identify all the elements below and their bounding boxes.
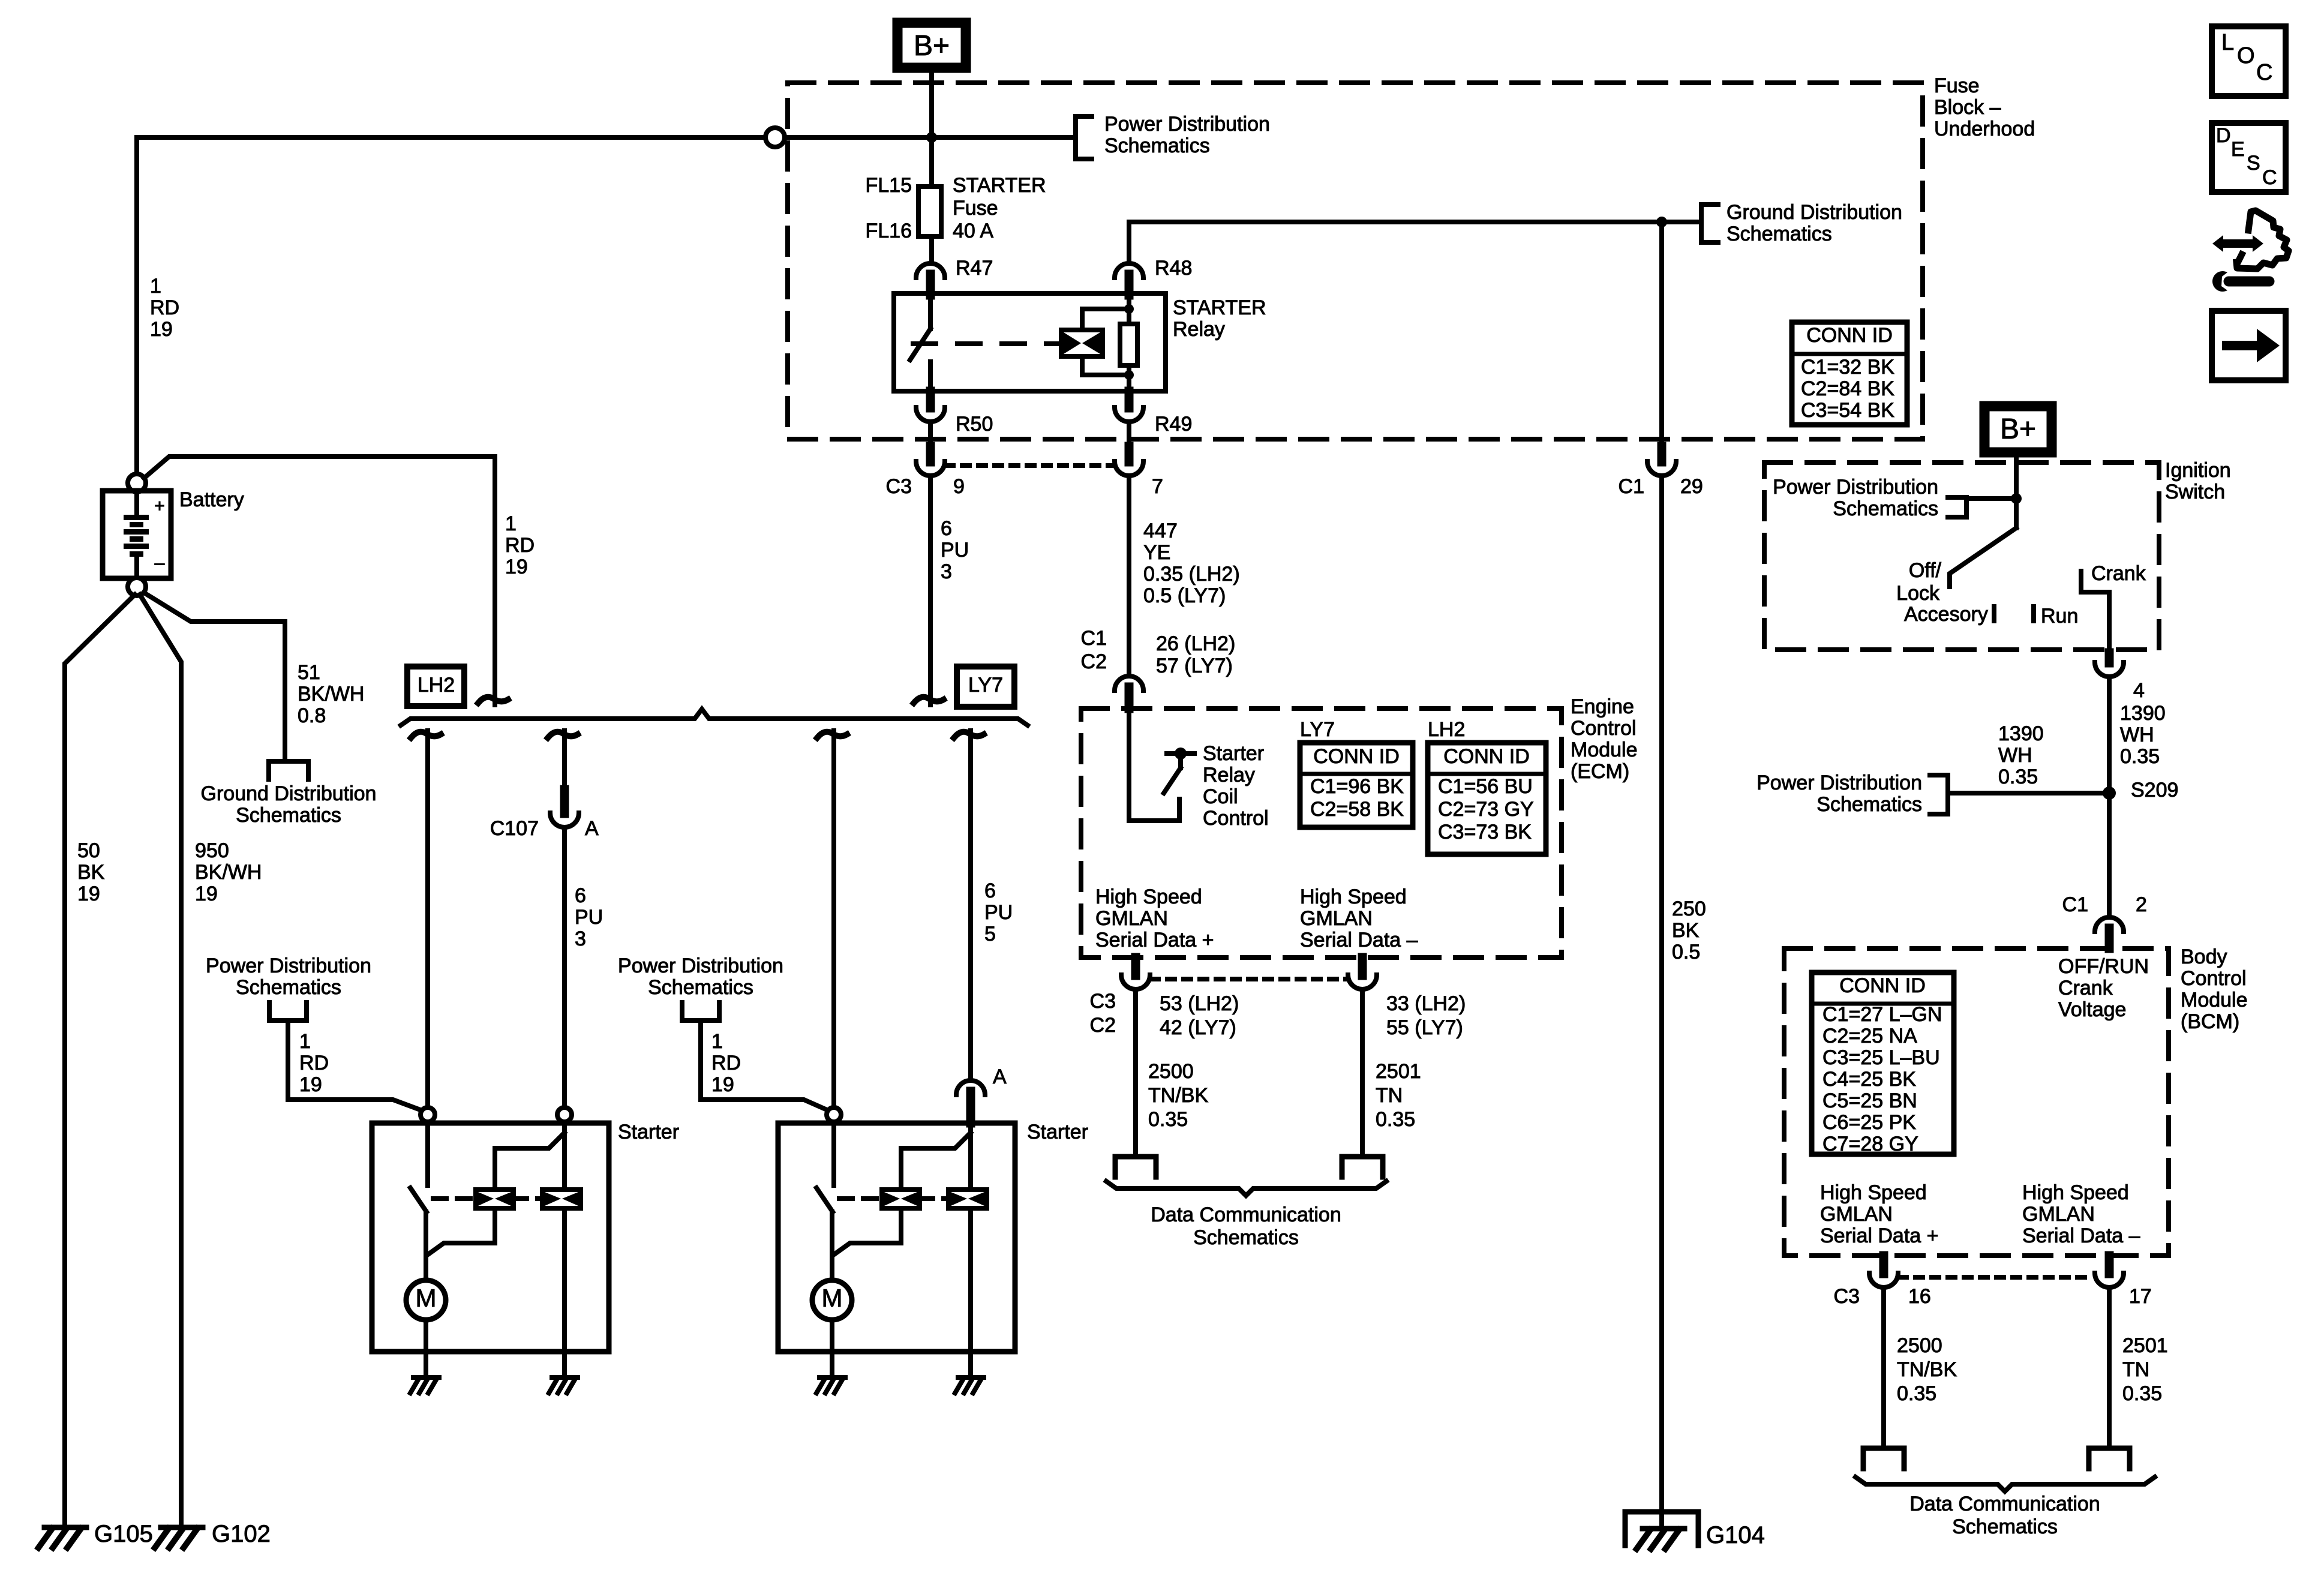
- wire crank feed through hold-in coil: [968, 1122, 973, 1190]
- svg-text:C2=84 BK: C2=84 BK: [1801, 377, 1894, 400]
- svg-text:19: 19: [77, 882, 100, 905]
- starter dashed actuate link: [839, 1196, 882, 1201]
- svg-text:Data Communication: Data Communication: [1909, 1493, 2100, 1515]
- ignition switch rotor arm: [1950, 528, 2016, 587]
- svg-text:50: 50: [77, 839, 100, 862]
- svg-text:Control: Control: [1203, 807, 1269, 830]
- label box LH2: [407, 667, 464, 706]
- svg-text:29: 29: [1680, 475, 1703, 498]
- svg-text:G102: G102: [212, 1521, 271, 1547]
- hook into brace (PU wire): [914, 697, 944, 703]
- wire battery - to G102: [140, 595, 181, 1525]
- svg-text:1390: 1390: [1998, 722, 2044, 745]
- svg-text:GMLAN: GMLAN: [2022, 1203, 2095, 1226]
- starter dashed actuate link: [433, 1196, 476, 1201]
- ECM starter relay coil control driver: [1129, 709, 1179, 821]
- wire 2501 TN (BCM): [2107, 1289, 2112, 1448]
- svg-text:1390: 1390: [2120, 702, 2166, 725]
- svg-text:2500: 2500: [1148, 1060, 1194, 1083]
- svg-text:Serial Data +: Serial Data +: [1095, 929, 1214, 951]
- wire rail to ground distribution junction: [1129, 220, 1662, 224]
- splice circle on top rail: [765, 128, 785, 147]
- svg-text:High Speed: High Speed: [1095, 885, 1202, 908]
- wire top rail: [137, 135, 768, 140]
- svg-text:Ignition: Ignition: [2165, 459, 2231, 482]
- junction dot B+ rail: [926, 132, 937, 143]
- svg-text:C3=73 BK: C3=73 BK: [1438, 821, 1532, 843]
- svg-text:S209: S209: [2131, 779, 2178, 801]
- svg-text:Lock: Lock: [1896, 582, 1940, 605]
- svg-text:Off/: Off/: [1909, 559, 1942, 582]
- svg-text:R48: R48: [1155, 257, 1192, 280]
- svg-text:Schematics: Schematics: [648, 976, 753, 999]
- svg-text:GMLAN: GMLAN: [1300, 907, 1373, 930]
- svg-text:C2=58 BK: C2=58 BK: [1310, 798, 1404, 821]
- wire 447 YE to ECM: [1127, 478, 1131, 676]
- svg-text:Module: Module: [2181, 989, 2248, 1011]
- svg-text:CONN ID: CONN ID: [1839, 974, 1926, 997]
- wire coil top branch: [1082, 309, 1129, 330]
- svg-text:57 (LY7): 57 (LY7): [1156, 655, 1233, 677]
- svg-text:TN: TN: [1376, 1084, 1403, 1107]
- svg-text:C3: C3: [1090, 990, 1116, 1013]
- svg-text:C4=25 BK: C4=25 BK: [1822, 1068, 1916, 1091]
- svg-text:Switch: Switch: [2165, 481, 2225, 503]
- wire 1 RD 19 to starter2: [701, 1020, 830, 1111]
- svg-text:CONN ID: CONN ID: [1806, 324, 1893, 347]
- svg-text:Accesory: Accesory: [1904, 603, 1988, 626]
- svg-text:C3: C3: [886, 475, 912, 498]
- svg-text:FL16: FL16: [866, 220, 912, 242]
- connector C2 pin 7: [1125, 446, 1134, 462]
- svg-text:Underhood: Underhood: [1934, 118, 2035, 140]
- BCM CONN ID table: [1812, 972, 1954, 1154]
- svg-text:C1=56 BU: C1=56 BU: [1438, 775, 1533, 798]
- bracket power distribution (S209 feed): [1930, 775, 1948, 814]
- svg-text:+: +: [154, 496, 165, 516]
- svg-text:26 (LH2): 26 (LH2): [1156, 632, 1235, 655]
- svg-text:7: 7: [1152, 475, 1163, 498]
- svg-text:Module: Module: [1571, 739, 1638, 761]
- svg-text:Voltage: Voltage: [2058, 998, 2126, 1021]
- svg-text:RD: RD: [505, 534, 535, 557]
- svg-text:Serial Data +: Serial Data +: [1820, 1224, 1939, 1247]
- svg-text:C3=25 L–BU: C3=25 L–BU: [1822, 1046, 1940, 1069]
- svg-text:250: 250: [1672, 897, 1706, 920]
- relay actuate dashed link: [913, 341, 1061, 346]
- svg-text:Schematics: Schematics: [1816, 793, 1922, 816]
- icon LOC: [2212, 26, 2286, 96]
- svg-text:Power Distribution: Power Distribution: [206, 954, 371, 977]
- wire 1390 WH horizontal: [1948, 791, 2109, 795]
- ECM dashed box: [1081, 709, 1562, 957]
- ground G104 (cased): [1625, 1512, 1698, 1545]
- battery box: [103, 491, 171, 578]
- splice S209: [2103, 786, 2116, 800]
- ground G105: [38, 1527, 86, 1548]
- svg-text:B+: B+: [2000, 413, 2036, 445]
- svg-text:(BCM): (BCM): [2181, 1010, 2239, 1033]
- svg-text:4: 4: [2133, 679, 2145, 702]
- svg-text:RD: RD: [711, 1052, 741, 1074]
- svg-text:2: 2: [2136, 893, 2147, 916]
- junction dots on relay winding wire: [1124, 304, 1134, 314]
- svg-text:6: 6: [941, 517, 952, 540]
- svg-text:0.35 (LH2): 0.35 (LH2): [1143, 563, 1240, 586]
- starter coil ground: [955, 1377, 984, 1393]
- svg-text:Crank: Crank: [2091, 562, 2146, 585]
- svg-text:LY7: LY7: [968, 674, 1003, 697]
- svg-text:Ground Distribution: Ground Distribution: [201, 782, 377, 805]
- svg-text:C1: C1: [2062, 893, 2088, 916]
- svg-text:C107: C107: [490, 817, 539, 840]
- wire 250 BK down to G104: [1659, 222, 1664, 446]
- svg-text:Schematics: Schematics: [1727, 223, 1832, 245]
- bracket ground distribution (left): [269, 761, 308, 779]
- svg-text:WH: WH: [1998, 744, 2032, 767]
- connector R47: [916, 263, 945, 278]
- power symbol B+ (ignition): [1984, 406, 2052, 452]
- wire 2500 TN/BK (ECM): [1133, 991, 1138, 1157]
- starter motor ground: [410, 1377, 439, 1393]
- connector R50: [926, 391, 935, 408]
- svg-text:19: 19: [150, 318, 173, 341]
- svg-text:BK: BK: [77, 861, 105, 884]
- wire brace to starter2 solenoid feed: [817, 732, 847, 738]
- svg-text:19: 19: [711, 1073, 734, 1096]
- starter motor M: [406, 1280, 446, 1320]
- wire pull-in coil top: [495, 1133, 565, 1190]
- svg-text:A: A: [585, 817, 599, 840]
- svg-text:M: M: [822, 1284, 843, 1312]
- starter pin circle (solenoid feed): [421, 1107, 435, 1122]
- fuse block CONN ID table: [1792, 322, 1907, 425]
- svg-text:C3: C3: [1834, 1285, 1860, 1308]
- relay STARTER Relay box: [894, 293, 1166, 391]
- wire pull-in coil top: [901, 1133, 971, 1190]
- svg-text:Block –: Block –: [1934, 96, 2001, 119]
- starter motor ground: [816, 1377, 845, 1393]
- svg-text:LH2: LH2: [1428, 718, 1465, 741]
- svg-text:CONN ID: CONN ID: [1313, 745, 1400, 768]
- battery plates: [134, 491, 139, 515]
- svg-text:0.35: 0.35: [1998, 766, 2038, 788]
- starter motor M: [812, 1280, 852, 1320]
- terminal (ECM data+): [1115, 1157, 1156, 1177]
- svg-text:2501: 2501: [2122, 1334, 2168, 1357]
- wire coil bottom branch: [1082, 356, 1129, 375]
- starter switch: [425, 1122, 430, 1185]
- wire crank feed through hold-in coil: [562, 1122, 567, 1190]
- svg-text:RD: RD: [150, 296, 179, 319]
- svg-text:Coil: Coil: [1203, 785, 1238, 808]
- svg-text:950: 950: [195, 839, 229, 862]
- svg-text:Power Distribution: Power Distribution: [1773, 476, 1938, 499]
- connector R48: [1115, 263, 1143, 278]
- bracket power distribution (starter1): [269, 1002, 307, 1020]
- svg-text:CONN ID: CONN ID: [1443, 745, 1530, 768]
- brace data communication (ECM): [1106, 1181, 1386, 1196]
- svg-text:5: 5: [984, 923, 996, 945]
- wire battery - to G105: [65, 595, 135, 1525]
- svg-text:TN/BK: TN/BK: [1148, 1084, 1208, 1107]
- BCM serial data - connector pin 17: [2105, 1256, 2114, 1274]
- starter switch: [831, 1122, 836, 1185]
- svg-text:1: 1: [711, 1030, 723, 1053]
- svg-text:WH: WH: [2120, 724, 2154, 746]
- svg-text:STARTER: STARTER: [953, 174, 1046, 197]
- wire pull-in coil bottom to switch: [833, 1208, 901, 1255]
- svg-text:2500: 2500: [1897, 1334, 1942, 1357]
- connector R49: [1125, 391, 1134, 408]
- label + contact Run: [2031, 607, 2036, 621]
- svg-text:G105: G105: [94, 1521, 153, 1547]
- svg-text:19: 19: [505, 556, 528, 578]
- wire 1390 WH to BCM: [2107, 679, 2112, 915]
- hook into brace (RD wire): [478, 697, 508, 703]
- ignition switch dashed box: [1764, 463, 2159, 650]
- svg-text:PU: PU: [984, 901, 1013, 924]
- svg-text:Schematics: Schematics: [1104, 134, 1210, 157]
- svg-text:Battery: Battery: [179, 488, 244, 511]
- svg-text:19: 19: [195, 882, 218, 905]
- power symbol B+ (top): [897, 23, 966, 68]
- svg-text:RD: RD: [299, 1052, 329, 1074]
- svg-text:G104: G104: [1706, 1522, 1765, 1548]
- dotted connector line (BCM bottom): [1899, 1275, 2094, 1280]
- svg-text:0.35: 0.35: [1376, 1108, 1415, 1131]
- svg-text:Schematics: Schematics: [1833, 497, 1938, 520]
- svg-text:Starter: Starter: [1203, 742, 1264, 765]
- svg-text:–: –: [155, 553, 165, 573]
- wire B+ to fuse: [929, 68, 934, 187]
- fuse block underhood dashed box: [788, 83, 1923, 439]
- wire R49 to pin7 connector: [1127, 424, 1131, 446]
- svg-text:High Speed: High Speed: [1300, 885, 1407, 908]
- svg-text:C3=54 BK: C3=54 BK: [1801, 399, 1894, 422]
- wire brace to starter2 crank feed: [954, 732, 984, 738]
- svg-text:19: 19: [299, 1073, 322, 1096]
- svg-text:Schematics: Schematics: [1952, 1515, 2058, 1538]
- svg-text:A: A: [993, 1065, 1007, 1088]
- svg-text:S: S: [2247, 152, 2260, 175]
- svg-text:TN: TN: [2122, 1358, 2149, 1381]
- svg-text:BK: BK: [1672, 919, 1700, 942]
- starter pull-in coil: [476, 1190, 514, 1208]
- svg-text:C: C: [2262, 166, 2277, 189]
- starter pin circle (crank feed): [557, 1107, 572, 1122]
- svg-text:1: 1: [150, 275, 161, 298]
- svg-text:Body: Body: [2181, 945, 2227, 968]
- wire battery positive to top rail: [134, 137, 139, 475]
- svg-text:0.35: 0.35: [1148, 1108, 1188, 1131]
- svg-text:OFF/RUN: OFF/RUN: [2058, 955, 2149, 978]
- BCM dashed box: [1784, 948, 2169, 1256]
- dotted connector line (ECM bottom): [1151, 977, 1347, 981]
- terminal (BCM data+): [1863, 1448, 1904, 1469]
- icon vehicle with arrow and wrench: [2212, 235, 2263, 252]
- svg-text:Starter: Starter: [1027, 1121, 1088, 1143]
- svg-text:447: 447: [1143, 520, 1178, 542]
- connector pin 4: [2105, 653, 2114, 663]
- svg-text:Serial Data –: Serial Data –: [1300, 929, 1418, 951]
- bracket power distribution (starter2): [682, 1002, 719, 1020]
- svg-text:FL15: FL15: [866, 174, 912, 197]
- wire brace to starter1 solenoid feed: [411, 732, 441, 738]
- svg-text:C2: C2: [1081, 650, 1107, 673]
- starter coil ground: [549, 1377, 578, 1393]
- svg-text:1: 1: [505, 512, 517, 535]
- svg-text:E: E: [2231, 138, 2245, 161]
- svg-text:53 (LH2): 53 (LH2): [1160, 992, 1239, 1015]
- dotted connector line C3: [946, 463, 1113, 468]
- fuse FL15/FL16 STARTER Fuse 40A: [918, 187, 941, 236]
- svg-text:Schematics: Schematics: [236, 804, 341, 827]
- svg-text:0.35: 0.35: [1897, 1382, 1936, 1405]
- svg-text:Power Distribution: Power Distribution: [1104, 113, 1270, 136]
- svg-text:6: 6: [575, 884, 586, 907]
- svg-text:Schematics: Schematics: [236, 976, 341, 999]
- relay resistor: [1127, 295, 1131, 324]
- starter hold-in coil: [948, 1190, 987, 1208]
- ECM serial data - connector: [1358, 957, 1367, 975]
- connector C3 pin 9: [926, 446, 935, 462]
- wire R48 up to ground-distribution rail: [1127, 222, 1131, 262]
- ground G102: [155, 1527, 203, 1548]
- svg-text:LY7: LY7: [1300, 718, 1335, 741]
- starter box (x=620): [372, 1123, 609, 1352]
- svg-text:Starter: Starter: [618, 1121, 679, 1143]
- svg-text:R49: R49: [1155, 413, 1192, 436]
- svg-text:Fuse: Fuse: [1934, 74, 1980, 97]
- svg-text:0.35: 0.35: [2120, 745, 2160, 768]
- svg-text:R47: R47: [956, 257, 993, 280]
- starter box (x=1297): [778, 1123, 1015, 1352]
- svg-text:Schematics: Schematics: [1193, 1226, 1299, 1249]
- svg-text:YE: YE: [1143, 541, 1170, 564]
- svg-text:Relay: Relay: [1203, 764, 1255, 786]
- svg-text:BK/WH: BK/WH: [195, 861, 262, 884]
- svg-text:Power Distribution: Power Distribution: [1756, 772, 1922, 794]
- wire R50 to C3 connector: [928, 424, 933, 446]
- starter hold-in coil: [542, 1190, 581, 1208]
- wire hold-in coil to ground: [968, 1352, 973, 1376]
- svg-text:LH2: LH2: [418, 674, 455, 697]
- svg-text:0.8: 0.8: [298, 704, 326, 727]
- svg-text:33 (LH2): 33 (LH2): [1386, 992, 1466, 1015]
- wire battery - 51 BK/WH to ground distribution: [144, 593, 285, 761]
- svg-text:High Speed: High Speed: [1820, 1181, 1927, 1204]
- svg-text:Control: Control: [1571, 717, 1637, 740]
- svg-text:TN/BK: TN/BK: [1897, 1358, 1957, 1381]
- wire 2501 TN (ECM): [1360, 991, 1365, 1157]
- wire B+ into ignition switch: [2014, 452, 2019, 528]
- svg-text:(ECM): (ECM): [1571, 760, 1629, 783]
- svg-text:C5=25 BN: C5=25 BN: [1822, 1089, 1917, 1112]
- svg-text:Crank: Crank: [2058, 977, 2113, 999]
- starter pull-in coil: [882, 1190, 920, 1208]
- wire fuse to R47: [929, 236, 934, 262]
- svg-text:R50: R50: [956, 413, 993, 436]
- svg-text:0.5 (LY7): 0.5 (LY7): [1143, 584, 1226, 607]
- svg-text:PU: PU: [575, 906, 603, 929]
- wire hold-in coil to ground: [562, 1352, 567, 1376]
- svg-text:42 (LY7): 42 (LY7): [1160, 1016, 1236, 1039]
- wire brace to starter1 crank feed via C107: [548, 732, 578, 738]
- svg-text:Engine: Engine: [1571, 695, 1634, 718]
- svg-text:1: 1: [299, 1030, 311, 1053]
- svg-text:Ground Distribution: Ground Distribution: [1727, 201, 1902, 224]
- svg-text:16: 16: [1908, 1285, 1931, 1308]
- svg-text:C: C: [2256, 60, 2272, 85]
- svg-text:C7=28 GY: C7=28 GY: [1822, 1133, 1918, 1155]
- svg-text:Data Communication: Data Communication: [1151, 1203, 1341, 1226]
- svg-text:PU: PU: [941, 539, 969, 562]
- svg-text:C6=25 PK: C6=25 PK: [1822, 1111, 1916, 1134]
- wire motor to ground: [424, 1320, 428, 1352]
- svg-text:6: 6: [984, 879, 996, 902]
- svg-text:Power Distribution: Power Distribution: [618, 954, 783, 977]
- terminal (ECM data-): [1342, 1157, 1383, 1177]
- wire pull-in coil bottom to switch: [427, 1208, 495, 1255]
- svg-text:D: D: [2216, 124, 2231, 147]
- wire crank output: [2107, 592, 2112, 653]
- svg-text:9: 9: [953, 475, 965, 498]
- svg-text:Control: Control: [2181, 967, 2247, 990]
- svg-text:51: 51: [298, 661, 320, 684]
- ECM serial data + connector: [1131, 957, 1140, 975]
- svg-text:Serial Data –: Serial Data –: [2022, 1224, 2140, 1247]
- svg-text:High Speed: High Speed: [2022, 1181, 2129, 1204]
- engine variant brace bus: [401, 709, 1028, 725]
- svg-text:55 (LY7): 55 (LY7): [1386, 1016, 1463, 1039]
- connector starter2 pin A: [956, 1080, 985, 1095]
- svg-text:M: M: [416, 1284, 437, 1312]
- wire motor to ground: [830, 1320, 834, 1352]
- svg-text:Run: Run: [2041, 605, 2078, 628]
- wire 1 RD 19 to starter1: [288, 1020, 424, 1111]
- wire 2500 TN/BK (BCM): [1881, 1289, 1886, 1448]
- svg-text:Fuse: Fuse: [953, 197, 998, 220]
- svg-text:GMLAN: GMLAN: [1095, 907, 1168, 930]
- svg-text:L: L: [2221, 30, 2234, 55]
- icon arrow: [2212, 311, 2286, 380]
- bracket power distribution (ignition): [1948, 497, 1966, 517]
- bracket Power Distribution Schematics (fuse block): [1076, 116, 1092, 159]
- svg-text:40 A: 40 A: [953, 220, 993, 242]
- svg-text:STARTER: STARTER: [1173, 296, 1266, 319]
- connector C107 pin A: [560, 789, 569, 813]
- svg-text:C2=73 GY: C2=73 GY: [1438, 798, 1534, 821]
- contact Crank: [2081, 571, 2109, 592]
- svg-text:C1: C1: [1081, 627, 1107, 650]
- svg-text:C1=96 BK: C1=96 BK: [1310, 775, 1404, 798]
- svg-text:C1=32 BK: C1=32 BK: [1801, 356, 1894, 379]
- svg-text:0.35: 0.35: [2122, 1382, 2162, 1405]
- svg-text:B+: B+: [914, 30, 950, 62]
- svg-text:BK/WH: BK/WH: [298, 683, 364, 706]
- relay coil: [1061, 330, 1103, 356]
- starter pin circle (solenoid feed): [827, 1107, 841, 1122]
- svg-text:O: O: [2237, 43, 2255, 68]
- svg-text:3: 3: [575, 927, 586, 950]
- wire 6 PU 3 down to engine brace: [928, 478, 933, 705]
- junction dot ground distribution rail: [1656, 217, 1667, 227]
- svg-text:0.5: 0.5: [1672, 941, 1700, 963]
- connector C1 pin 29: [1658, 446, 1667, 462]
- svg-text:3: 3: [941, 560, 952, 583]
- battery terminal circle -: [128, 578, 146, 596]
